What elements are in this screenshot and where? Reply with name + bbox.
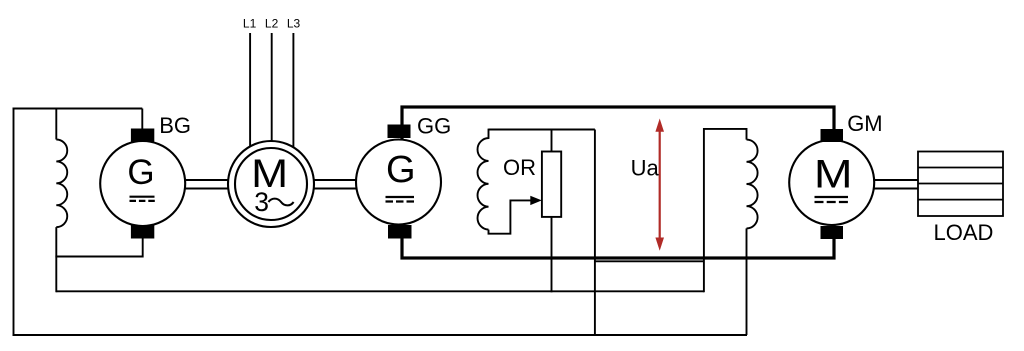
wire pot bottom lead xyxy=(551,217,553,292)
wire BG field coil tail xyxy=(55,227,57,292)
wire GM field coil tail xyxy=(746,228,748,335)
wire bottom rail xyxy=(13,334,748,336)
wire long bottom horizontal xyxy=(56,290,704,292)
BG bottom brush xyxy=(131,226,154,239)
BG DC symbol solid line xyxy=(130,196,155,198)
GG DC symbol dashed line xyxy=(386,200,415,202)
wire OR wiper path xyxy=(489,200,532,233)
armature circuit box (thick) xyxy=(402,107,834,258)
inductor BG field coil xyxy=(56,140,67,228)
svg-text:G: G xyxy=(127,153,154,192)
svg-text:GM: GM xyxy=(847,111,882,136)
wire L2 xyxy=(271,33,273,144)
motor 3-phase outer circle xyxy=(228,141,314,227)
svg-text:BG: BG xyxy=(159,113,191,138)
wiper arrowhead xyxy=(530,196,542,205)
motor sine symbol xyxy=(269,199,294,206)
wire BG top drop xyxy=(141,109,143,132)
generator GG circle xyxy=(356,140,441,225)
svg-text:Ua: Ua xyxy=(631,156,660,181)
shaft motor to GG xyxy=(312,180,358,189)
wire pot rail vertical xyxy=(594,130,596,336)
wire GM field coil left xyxy=(704,129,747,292)
LOAD box xyxy=(918,152,1003,217)
inductor GM field coil xyxy=(747,140,758,229)
wire BG bottom link xyxy=(55,238,142,257)
svg-text:GG: GG xyxy=(417,113,451,138)
GM top brush xyxy=(821,129,844,142)
svg-text:L2: L2 xyxy=(265,17,279,31)
GG DC symbol solid line xyxy=(386,196,415,198)
svg-text:G: G xyxy=(386,149,416,191)
wire BG field coil feed xyxy=(55,108,57,140)
GM DC symbol dashed line xyxy=(815,201,849,203)
GG top brush xyxy=(388,125,411,139)
svg-text:L3: L3 xyxy=(287,17,301,31)
svg-text:3: 3 xyxy=(254,187,269,217)
potentiometer body xyxy=(542,152,561,217)
wire top rail xyxy=(13,108,143,110)
svg-text:L1: L1 xyxy=(243,17,257,31)
shaft BG to motor xyxy=(183,180,230,189)
wire L3 xyxy=(292,33,294,149)
inductor OR coil xyxy=(478,129,489,230)
wire link under box xyxy=(595,260,704,262)
svg-text:OR: OR xyxy=(503,155,536,180)
wire OR top line xyxy=(489,129,595,131)
wire L1 xyxy=(249,33,251,149)
voltage arrow Ua (red) xyxy=(659,129,661,241)
GM bottom brush xyxy=(821,226,844,239)
wire pot top lead xyxy=(551,130,553,153)
motor GM circle xyxy=(789,140,874,225)
BG top brush xyxy=(131,129,154,142)
GM DC symbol solid line xyxy=(815,196,849,198)
wire left vertical rail xyxy=(13,109,15,336)
LOAD box inner lines xyxy=(918,168,1003,200)
BG DC symbol dashed line xyxy=(130,200,155,202)
generator BG circle xyxy=(100,141,185,226)
svg-text:LOAD: LOAD xyxy=(934,220,994,245)
GG bottom brush xyxy=(388,225,412,239)
svg-text:M: M xyxy=(814,152,853,196)
motor 3-phase inner circle xyxy=(235,148,307,220)
shaft GM to LOAD xyxy=(872,180,919,189)
